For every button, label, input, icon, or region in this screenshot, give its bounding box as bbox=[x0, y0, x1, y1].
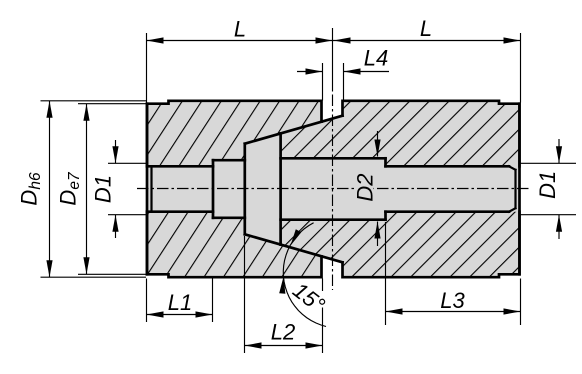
D1 right extension bottom bbox=[521, 214, 577, 216]
L1 dim line bbox=[147, 314, 213, 316]
right bore chamfer bottom bbox=[509, 208, 516, 212]
svg-text:L3: L3 bbox=[440, 288, 465, 313]
pin bottom edge bbox=[213, 216, 245, 219]
15 arc arrow at cone line bbox=[290, 229, 301, 245]
L3 extension left bbox=[385, 222, 387, 325]
left bushing outline bottom bbox=[147, 212, 322, 278]
right face across bore bbox=[518, 104, 521, 275]
D1 right dim tails bbox=[558, 139, 560, 163]
left face across bore bbox=[146, 104, 149, 275]
svg-text:D2: D2 bbox=[352, 174, 377, 202]
L extension right bbox=[520, 33, 522, 103]
hatch left bushing upper half bbox=[147, 101, 322, 167]
15 arc arrow at bottom face bbox=[279, 277, 285, 294]
cone line top bbox=[245, 116, 343, 144]
cone line bottom bbox=[245, 234, 343, 262]
L1 arrows bbox=[147, 311, 164, 317]
L2 extension left bbox=[244, 236, 246, 353]
L dim line left bbox=[147, 40, 333, 42]
15 degree arc bbox=[283, 223, 326, 327]
L left arrows bbox=[147, 37, 164, 43]
L4 tail left bbox=[297, 71, 323, 73]
L3 arrows bbox=[386, 308, 403, 314]
right bushing outline bottom bbox=[343, 212, 520, 278]
right bore D1 top edge bbox=[386, 165, 510, 168]
L2 extension right (below text gap) bbox=[322, 308, 324, 354]
L4 extension right bbox=[343, 63, 345, 101]
pin right face bbox=[279, 133, 282, 244]
De7 extension bottom bbox=[78, 273, 146, 275]
pin top edge bbox=[213, 159, 245, 162]
hatch right bushing lower half bbox=[281, 212, 520, 278]
label D2 halo bbox=[355, 172, 374, 203]
D1 right extension top bbox=[521, 162, 577, 164]
right bore D1 bottom edge bbox=[386, 210, 510, 213]
D2 dim tails bbox=[377, 131, 379, 157]
D2 bore bottom edge bbox=[281, 218, 386, 221]
left bore D1 bottom edge bbox=[147, 210, 213, 213]
D1 left extension bottom bbox=[108, 214, 146, 216]
hatch left bushing lower half bbox=[147, 212, 322, 278]
L2 dim line bbox=[245, 345, 323, 347]
Dh6 dim line bbox=[49, 101, 51, 277]
right bushing outline top bbox=[343, 101, 520, 167]
L3 dim line bbox=[386, 311, 521, 313]
svg-text:D1: D1 bbox=[535, 171, 560, 199]
D1 left dim tails bbox=[115, 140, 117, 163]
D1 left arrows bbox=[112, 146, 118, 163]
vertical centerline at joint (dash-dot) bbox=[332, 95, 334, 291]
right bore chamfer top bbox=[509, 166, 516, 170]
pin left face bbox=[212, 160, 215, 218]
L1 extension right bbox=[212, 279, 214, 323]
L4 extension left bbox=[322, 63, 324, 101]
vertical centerline at joint (solid upper segment) bbox=[332, 28, 334, 92]
svg-text:L4: L4 bbox=[364, 46, 388, 71]
right bore chamfer edge bbox=[514, 170, 516, 208]
Dh6 extension bottom bbox=[41, 276, 147, 278]
D1 right arrows bbox=[556, 146, 562, 163]
hatch right bushing upper half bbox=[281, 101, 520, 167]
L3 extension right bbox=[520, 279, 522, 326]
L4 tail right bbox=[344, 71, 390, 73]
D2/D1 step bottom bbox=[384, 212, 387, 220]
svg-text:L: L bbox=[420, 16, 432, 41]
D2 arrows bbox=[374, 140, 380, 157]
centering pin body fill (solid, unhatched) bbox=[213, 133, 281, 244]
left bushing outline top bbox=[147, 101, 322, 167]
svg-text:L2: L2 bbox=[271, 320, 295, 345]
De7 arrows bbox=[83, 104, 89, 121]
svg-text:L1: L1 bbox=[168, 290, 192, 315]
D2 bore top edge bbox=[281, 157, 386, 160]
D2/D1 step top bbox=[384, 158, 387, 166]
svg-text:L: L bbox=[234, 17, 246, 42]
right bushing body fill bbox=[281, 101, 520, 277]
L2 extension right (above text gap) bbox=[322, 279, 324, 292]
De7 dim line bbox=[86, 104, 88, 275]
Dh6 arrows bbox=[46, 101, 52, 118]
left bore D1 top edge bbox=[147, 165, 213, 168]
L2 arrows bbox=[245, 342, 262, 348]
svg-text:D1: D1 bbox=[91, 175, 116, 203]
horizontal centerline bbox=[137, 188, 530, 190]
D1 left extension top bbox=[108, 162, 146, 164]
L4 arrows bbox=[306, 68, 323, 74]
L dim line right bbox=[333, 40, 521, 42]
left bore chamfer edge bbox=[150, 167, 152, 210]
L right arrows bbox=[334, 37, 351, 43]
left bushing body fill bbox=[147, 101, 322, 277]
pin cone base edge bbox=[243, 144, 246, 235]
L extension left bbox=[146, 33, 148, 103]
De7 extension top bbox=[78, 103, 146, 105]
Dh6 extension top bbox=[41, 100, 147, 102]
L1 extension left bbox=[146, 279, 148, 323]
